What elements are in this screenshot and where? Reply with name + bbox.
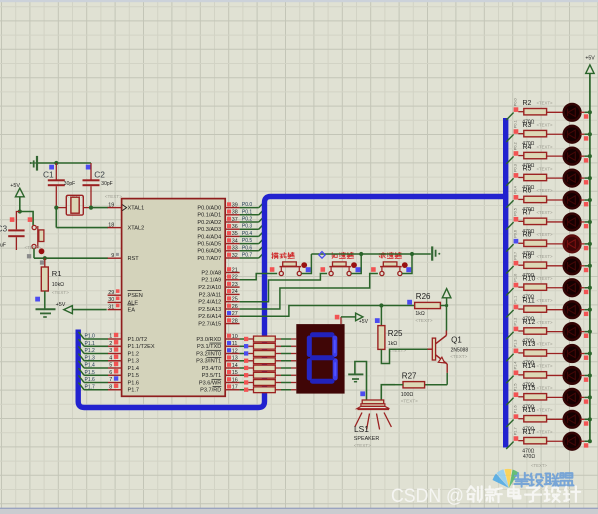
svg-text:P1.7: P1.7 <box>128 388 140 394</box>
svg-text:33: 33 <box>232 246 238 252</box>
junction rail row 1 <box>588 110 592 114</box>
svg-text:<TEXT>: <TEXT> <box>537 166 553 171</box>
svg-text:31: 31 <box>108 304 114 310</box>
svg-text:P2.5/A13: P2.5/A13 <box>198 307 221 313</box>
pin 37 P0.2 stub <box>225 217 239 223</box>
pin 16 P3.6 stub <box>225 377 239 383</box>
resistor R4 <box>518 152 564 158</box>
pin 34 P0.5 stub <box>225 238 239 244</box>
svg-text:<TEXT>: <TEXT> <box>531 463 547 468</box>
marker R4 <box>514 151 519 156</box>
junction R25 top <box>379 303 383 307</box>
svg-text:P2.6/A14: P2.6/A14 <box>198 314 221 320</box>
wire led R6 to rail <box>580 199 590 201</box>
svg-text:R8: R8 <box>523 231 532 238</box>
svg-text:P0.0: P0.0 <box>242 202 253 208</box>
svg-text:LS1: LS1 <box>354 424 369 434</box>
marker red btn3 <box>371 267 376 272</box>
marker red C3-top <box>10 217 15 222</box>
pin 11 P3.1 stub <box>225 341 239 347</box>
wire P1.6 to bus <box>78 375 108 382</box>
wire P0.0 to bus <box>240 203 264 208</box>
svg-text:27: 27 <box>232 311 238 317</box>
svg-text:<TEXT>: <TEXT> <box>25 245 42 250</box>
display common pin <box>341 317 355 324</box>
svg-text:RST: RST <box>128 256 140 262</box>
marker red led4 <box>584 180 588 184</box>
svg-text:P1.2: P1.2 <box>513 318 517 326</box>
wire emitter to R27 <box>446 364 448 385</box>
wire RN1 to display <box>275 338 296 340</box>
svg-text:10kΩ: 10kΩ <box>52 282 64 288</box>
marker R14 <box>514 370 519 375</box>
marker R12 <box>514 327 519 332</box>
label accel button <box>331 253 337 259</box>
wire P1.1 to bus <box>78 339 108 346</box>
pin 26 P2.5 stub <box>225 304 239 310</box>
button SW-ACCEL <box>329 262 361 276</box>
resistor R27 <box>395 382 447 388</box>
wire P2.5 to decel button <box>240 274 378 310</box>
svg-text:P1.2: P1.2 <box>128 351 140 357</box>
svg-text:R13: R13 <box>523 341 536 348</box>
wire RN2 to display <box>275 345 296 347</box>
resistor R11 <box>518 306 564 312</box>
wire XTAL2 <box>56 227 108 229</box>
svg-text:R3: R3 <box>523 122 532 129</box>
wire bus entry P0.1 <box>506 134 513 142</box>
pin 19 XTAL1 stub <box>108 202 122 208</box>
svg-text:P0.1: P0.1 <box>513 120 517 128</box>
bus main loop (P1/P0) <box>78 197 508 408</box>
ground (speaker) <box>348 362 366 400</box>
svg-text:P0.7: P0.7 <box>242 253 253 259</box>
wire P0.4 to bus <box>240 232 264 237</box>
svg-text:<TEXT>: <TEXT> <box>537 210 553 215</box>
svg-text:19: 19 <box>108 202 114 208</box>
svg-text:P0.5: P0.5 <box>242 238 253 244</box>
wire led R5 to rail <box>580 177 590 179</box>
wire speaker to R27 <box>381 385 395 400</box>
svg-text:10uF: 10uF <box>0 242 6 248</box>
svg-text:P1.3: P1.3 <box>85 355 96 361</box>
junction crystal left <box>54 206 58 210</box>
svg-text:14: 14 <box>232 363 238 369</box>
led D8 <box>564 258 581 275</box>
svg-text:P0.4: P0.4 <box>242 231 253 237</box>
svg-text:9: 9 <box>111 253 114 259</box>
resistor R13 <box>518 350 564 356</box>
marker red led11 <box>584 334 588 338</box>
svg-text:23: 23 <box>232 282 238 288</box>
svg-text:30: 30 <box>108 297 114 303</box>
svg-text:P1.1: P1.1 <box>85 341 96 347</box>
svg-text:<TEXT>: <TEXT> <box>537 188 553 193</box>
junction C1 top <box>54 161 58 165</box>
svg-text:R16: R16 <box>523 407 536 414</box>
svg-text:P2.7/A15: P2.7/A15 <box>198 322 221 328</box>
marker red led15 <box>584 421 588 425</box>
svg-text:P0.3/AD3: P0.3/AD3 <box>197 227 221 233</box>
wire bus entry P0.3 <box>506 178 513 186</box>
marker blue R26 <box>407 300 412 305</box>
svg-text:P0.2/AD2: P0.2/AD2 <box>197 220 221 226</box>
svg-text:<TEXT>: <TEXT> <box>450 354 467 359</box>
svg-text:30pF: 30pF <box>64 181 75 187</box>
svg-text:P0.7/AD7: P0.7/AD7 <box>197 256 221 262</box>
pin 5 P1.4 stub <box>108 362 122 369</box>
led D1 <box>564 104 581 121</box>
logo bishe-lianmeng icon <box>493 469 519 488</box>
wire bus entry P1.0 <box>506 288 513 296</box>
marker R7 <box>514 217 519 222</box>
ground (R1) <box>36 309 56 317</box>
power +5V (EA) <box>56 302 107 314</box>
svg-text:P1.3: P1.3 <box>128 359 140 365</box>
svg-text:EA: EA <box>128 308 136 314</box>
wire P1.5 to bus <box>78 368 108 375</box>
svg-text:2N5088: 2N5088 <box>451 347 469 353</box>
resistor RN5 (segment e) <box>240 365 276 371</box>
resistor RN1 (segment a) <box>240 336 276 342</box>
svg-text:30pF: 30pF <box>101 181 112 187</box>
capacitor C3 <box>8 212 24 251</box>
wire P1.3 to bus <box>78 354 108 361</box>
marker R2 <box>514 107 519 112</box>
svg-text:R1: R1 <box>52 269 62 278</box>
pin 35 P0.4 stub <box>225 231 239 237</box>
marker R5 <box>514 173 519 178</box>
led D6 <box>564 214 581 231</box>
svg-text:15: 15 <box>232 370 238 376</box>
svg-text:2: 2 <box>109 341 112 347</box>
svg-text:<TEXT>: <TEXT> <box>537 364 553 369</box>
capacitor C2 <box>83 163 100 208</box>
marker R6 <box>514 195 519 200</box>
wire led R12 to rail <box>580 331 590 333</box>
led D13 <box>564 367 581 384</box>
wire P0.6 to bus <box>240 246 264 251</box>
junction rail row 8 <box>588 264 592 268</box>
wire led R9 to rail <box>580 265 590 267</box>
svg-text:P1.4: P1.4 <box>85 363 96 369</box>
marker blue C2 <box>86 165 91 170</box>
junction rail row 2 <box>588 132 592 136</box>
svg-text:R26: R26 <box>416 292 431 301</box>
svg-text:P0.5: P0.5 <box>513 208 517 216</box>
svg-text:P3.6/WR: P3.6/WR <box>199 380 221 386</box>
marker R15 <box>514 392 519 397</box>
wire led R15 to rail <box>580 396 590 398</box>
marker red led12 <box>584 356 588 360</box>
svg-text:CSDN @: CSDN @ <box>391 485 464 507</box>
pin 10 P3.0 stub <box>225 334 239 340</box>
pin 32 P0.7 stub <box>225 253 239 259</box>
junction rail row 9 <box>588 286 592 290</box>
svg-text:R12: R12 <box>523 319 536 326</box>
svg-text:<TEXT>: <TEXT> <box>52 290 69 295</box>
watermark CSDN <box>391 485 464 507</box>
resistor R2 <box>518 109 564 115</box>
svg-text:R10: R10 <box>523 275 536 282</box>
pin 8 P1.7 stub <box>108 384 122 391</box>
resistor R3 <box>518 130 564 136</box>
svg-text:26: 26 <box>232 304 238 310</box>
pin 1 P1.0 stub <box>108 333 122 340</box>
svg-text:P0.4/AD4: P0.4/AD4 <box>197 234 221 240</box>
wire led R4 to rail <box>580 155 590 157</box>
junction rail-btn3 <box>410 252 414 256</box>
marker R9 <box>514 261 519 266</box>
svg-text:39: 39 <box>232 202 238 208</box>
marker R10 <box>514 283 519 288</box>
svg-text:P1.2: P1.2 <box>85 348 96 354</box>
marker red led16 <box>584 443 588 447</box>
svg-text:<TEXT>: <TEXT> <box>537 408 553 413</box>
pin 27 P2.6 stub <box>225 311 239 317</box>
svg-text:29: 29 <box>108 290 114 296</box>
svg-text:P0.6: P0.6 <box>242 245 253 251</box>
marker red btn2 <box>321 267 326 272</box>
pin 13 P3.3 stub <box>225 355 239 361</box>
svg-text:+5V: +5V <box>56 302 66 308</box>
junction rail row 10 <box>588 308 592 312</box>
led D10 <box>564 301 581 318</box>
mcu U1 AT89C51 body <box>122 199 226 397</box>
svg-text:P0.2: P0.2 <box>242 217 253 223</box>
junction rail-btn2 <box>359 252 363 256</box>
svg-text:P1.6: P1.6 <box>85 377 96 383</box>
wire led R2 to rail <box>580 111 590 113</box>
wire XTAL2 vertical <box>55 208 57 228</box>
pin 31 EA stub <box>108 304 122 311</box>
svg-text:P1.1: P1.1 <box>513 296 517 304</box>
svg-text:6: 6 <box>109 370 112 376</box>
svg-text:R15: R15 <box>523 385 536 392</box>
svg-text:P0.6/AD6: P0.6/AD6 <box>197 249 221 255</box>
svg-text:<TEXT>: <TEXT> <box>537 122 553 127</box>
svg-text:P1.4: P1.4 <box>128 366 140 372</box>
pin 29 PSEN stub <box>108 289 122 296</box>
wire P2.1 to mode button <box>240 274 278 280</box>
pin 14 P3.4 stub <box>225 363 239 369</box>
pin 30 ALE stub <box>108 297 122 304</box>
svg-text:1: 1 <box>109 334 112 340</box>
wire led R13 to rail <box>580 353 590 355</box>
wire P2.4 to accel button <box>240 274 328 302</box>
marker R11 <box>514 305 519 310</box>
svg-text:R7: R7 <box>523 210 532 217</box>
svg-text:R9: R9 <box>523 253 532 260</box>
wire P0.7 to bus <box>240 253 264 258</box>
marker R16 <box>514 414 519 419</box>
marker red led2 <box>584 136 588 140</box>
svg-text:R14: R14 <box>523 363 536 370</box>
svg-text:25: 25 <box>232 297 238 303</box>
marker gray sw-bottom <box>27 254 31 258</box>
junction rail row 7 <box>588 242 592 246</box>
display 7SEG segments <box>309 335 335 381</box>
svg-text:P0.3: P0.3 <box>242 224 253 230</box>
svg-text:P1.0: P1.0 <box>513 274 517 282</box>
svg-text:<TEXT>: <TEXT> <box>537 144 553 149</box>
svg-text:P0.5/AD5: P0.5/AD5 <box>197 242 221 248</box>
marker blue R25 <box>375 318 380 323</box>
wire led R17 to rail <box>580 440 590 442</box>
svg-text:R17: R17 <box>523 429 536 436</box>
svg-text:P1.3: P1.3 <box>513 340 517 348</box>
svg-text:P0.0/AD0: P0.0/AD0 <box>197 206 221 212</box>
pin 39 P0.0 stub <box>225 202 239 208</box>
resistor RN4 (segment d) <box>240 358 276 364</box>
svg-text:<TEXT>: <TEXT> <box>537 232 553 237</box>
svg-text:<TEXT>: <TEXT> <box>537 429 553 434</box>
marker gray R1-top <box>40 260 44 264</box>
junction crystal right <box>89 206 93 210</box>
pin 36 P0.3 stub <box>225 224 239 230</box>
svg-text:35: 35 <box>232 231 238 237</box>
marker red led3 <box>584 158 588 162</box>
marker red led10 <box>584 312 588 316</box>
svg-text:28: 28 <box>232 318 238 324</box>
ground (crystal caps) <box>30 156 38 171</box>
resistor R10 <box>518 284 564 290</box>
marker red led14 <box>584 399 588 403</box>
svg-text:P1.5: P1.5 <box>128 373 140 379</box>
svg-text:<TEXT>: <TEXT> <box>401 398 418 403</box>
pin 21 P2.0 stub <box>225 267 239 273</box>
junction rail row 6 <box>588 220 592 224</box>
pin 25 P2.4 stub <box>225 296 239 302</box>
power +5V (LED rail) <box>585 55 595 73</box>
resistor R17 <box>518 437 564 443</box>
wire bus entry P1.5 <box>506 398 513 406</box>
junction collector node <box>445 304 448 307</box>
wire P0.1 to bus <box>240 210 264 215</box>
svg-text:R27: R27 <box>402 371 417 380</box>
svg-text:<TEXT>: <TEXT> <box>537 298 553 303</box>
wire +5V to switch <box>20 212 33 226</box>
wire P2.6 to R25/R26 node <box>240 306 416 317</box>
resistor R5 <box>518 174 564 180</box>
svg-text:<TEXT>: <TEXT> <box>354 443 371 448</box>
junction rail row 4 <box>588 176 592 180</box>
button RESET (vertical) <box>32 225 44 254</box>
pin 12 P3.2 stub <box>225 348 239 354</box>
junction RST/R1 <box>43 256 47 260</box>
svg-text:22: 22 <box>232 275 238 281</box>
pin 2 P1.1 stub <box>108 340 122 347</box>
resistor RN3 (segment c) <box>240 351 276 357</box>
svg-text:C1: C1 <box>43 170 54 180</box>
resistor R7 <box>518 218 564 224</box>
watermark chinese text <box>467 486 481 501</box>
wire button rail <box>311 253 430 255</box>
svg-text:P2.0/A8: P2.0/A8 <box>201 270 221 276</box>
svg-text:<TEXT>: <TEXT> <box>537 386 553 391</box>
display 7SEG body <box>296 324 344 394</box>
wire P1.0 to bus <box>78 332 108 339</box>
marker red led7 <box>584 246 588 250</box>
resistor R8 <box>518 240 564 246</box>
svg-text:32: 32 <box>232 253 238 259</box>
wire btn1 to rail <box>301 254 311 274</box>
wire XTAL1 <box>91 207 108 209</box>
label mode button <box>272 253 279 259</box>
svg-text:1kΩ: 1kΩ <box>415 311 424 317</box>
svg-text:C3: C3 <box>0 224 8 234</box>
pin 7 P1.6 stub <box>108 376 122 383</box>
junction rail row 3 <box>588 154 592 158</box>
pin XTAL1 arrow <box>122 205 126 211</box>
marker R8 <box>514 239 519 244</box>
svg-text:R25: R25 <box>388 329 403 338</box>
wire bus entry P1.4 <box>506 376 513 384</box>
wire led R16 to rail <box>580 418 590 420</box>
svg-text:P2.1/A9: P2.1/A9 <box>201 278 221 284</box>
svg-text:P0.2: P0.2 <box>513 142 517 150</box>
svg-text:36: 36 <box>232 224 238 230</box>
svg-text:21: 21 <box>232 267 238 273</box>
power +5V (reset) <box>10 183 24 212</box>
pin 33 P0.6 stub <box>225 246 239 252</box>
wire led R11 to rail <box>580 309 590 311</box>
svg-text:10: 10 <box>232 334 238 340</box>
svg-text:XTAL1: XTAL1 <box>128 206 145 212</box>
svg-text:+5V: +5V <box>585 55 595 61</box>
marker red led5 <box>584 202 588 206</box>
svg-text:16: 16 <box>232 377 238 383</box>
wire bus entry P0.5 <box>506 222 513 230</box>
svg-text:XTAL2: XTAL2 <box>128 226 145 232</box>
junction rail row 15 <box>588 417 592 421</box>
svg-text:24: 24 <box>232 289 238 295</box>
resistor RN2 (segment b) <box>240 343 276 349</box>
svg-text:C2: C2 <box>94 170 105 180</box>
resistor R16 <box>518 416 564 422</box>
svg-text:1kΩ: 1kΩ <box>388 341 397 347</box>
led D4 <box>564 170 581 187</box>
svg-text:P0.4: P0.4 <box>513 186 517 194</box>
svg-text:13: 13 <box>232 356 238 362</box>
svg-text:P0.3: P0.3 <box>513 164 517 172</box>
marker red led6 <box>584 224 588 228</box>
mcu U1 pin names <box>128 206 222 394</box>
svg-text:P1.0/T2: P1.0/T2 <box>128 337 148 343</box>
marker R3 <box>514 129 519 134</box>
svg-text:P3.5/T1: P3.5/T1 <box>202 373 222 379</box>
led D16 <box>564 433 581 450</box>
led D2 <box>564 126 581 143</box>
svg-text:8: 8 <box>109 384 112 390</box>
svg-text:P3.2/INT0: P3.2/INT0 <box>196 351 221 357</box>
pin 3 P1.2 stub <box>108 347 122 354</box>
svg-text:<TEXT>: <TEXT> <box>537 254 553 259</box>
wire cap-top rail <box>38 162 91 164</box>
resistor R12 <box>518 328 564 334</box>
svg-text:P1.5: P1.5 <box>513 383 517 391</box>
marker red SW-top <box>28 217 33 222</box>
svg-text:5: 5 <box>109 363 112 369</box>
svg-text:18: 18 <box>108 222 114 228</box>
wire led R3 to rail <box>580 133 590 135</box>
wire bus entry P1.3 <box>506 354 513 362</box>
resistor RN8 (segment h) <box>240 387 276 393</box>
svg-text:P3.3/INT1: P3.3/INT1 <box>196 359 221 365</box>
wire bus entry P1.1 <box>506 310 513 318</box>
svg-text:+5V: +5V <box>359 319 369 325</box>
wire RN5 to display <box>275 367 296 369</box>
